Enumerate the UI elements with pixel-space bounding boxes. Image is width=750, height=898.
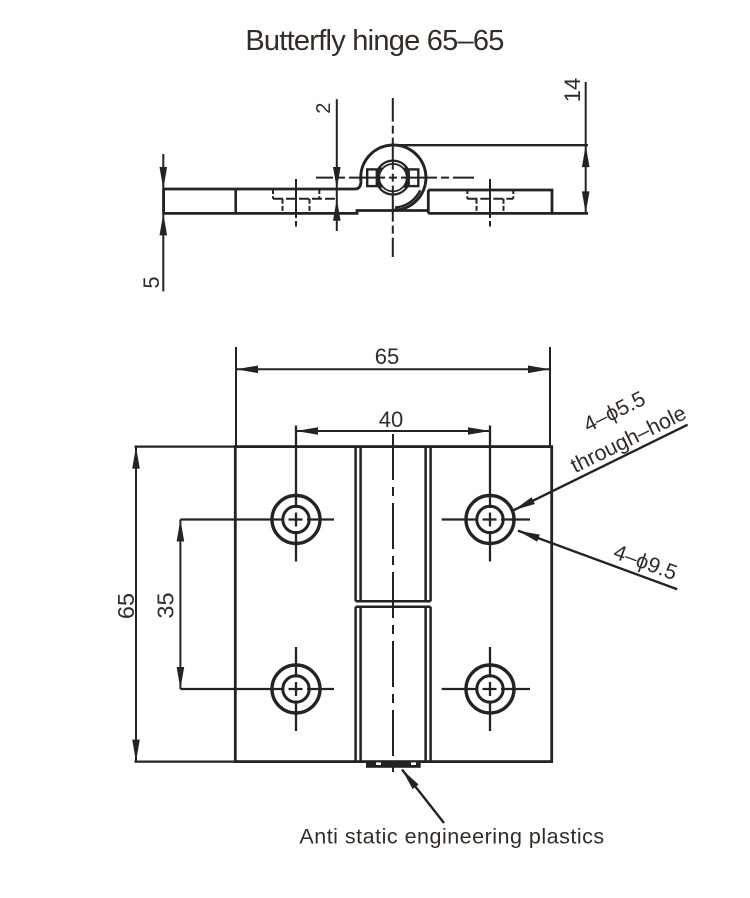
svg-text:35: 35: [153, 592, 179, 618]
svg-text:2: 2: [313, 103, 335, 114]
svg-text:Anti static engineering plasti: Anti static engineering plastics: [299, 825, 604, 849]
svg-text:65: 65: [375, 344, 399, 369]
svg-text:14: 14: [560, 78, 585, 102]
svg-text:5: 5: [139, 276, 164, 288]
svg-text:Butterfly hinge 65–65: Butterfly hinge 65–65: [245, 25, 503, 57]
svg-text:65: 65: [113, 593, 139, 619]
svg-text:40: 40: [379, 407, 403, 432]
